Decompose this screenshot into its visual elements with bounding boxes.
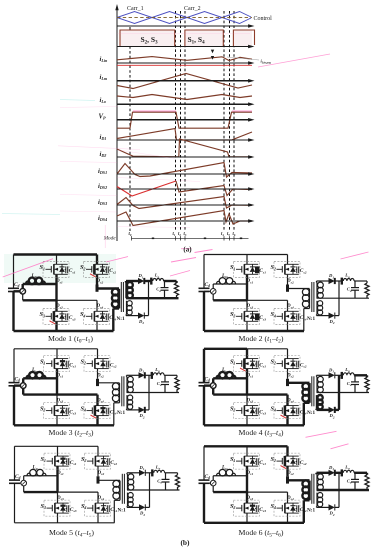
capacitor Cs1 mode 6	[255, 461, 256, 463]
pink current path stroke mode 6	[331, 444, 349, 449]
node bar primary junction mode 1	[96, 285, 99, 292]
svg-text:Ds1: Ds1	[246, 373, 254, 378]
wire node A left mode 2	[213, 299, 247, 301]
wire primary return mode 4	[303, 403, 305, 426]
inductor Lo mode 3	[153, 373, 164, 376]
current sensor circle mode 2	[210, 289, 216, 295]
current sensor circle mode 6	[210, 480, 216, 486]
wire right leg bottom mode 6	[287, 514, 289, 523]
transistor S4 mode 1	[84, 308, 110, 324]
wire D2 out mode 6	[335, 506, 339, 508]
waveform i_D2	[117, 139, 252, 157]
wire center tap mode 2	[317, 297, 370, 299]
wire primary bottom mode 6	[308, 499, 310, 501]
wire node A left mode 3	[23, 393, 57, 395]
transistor S1 mode 6	[234, 453, 260, 469]
inductor Lo mode 2	[343, 279, 354, 282]
svg-text:(b): (b)	[180, 538, 190, 547]
capacitor Co mode 6	[351, 478, 359, 480]
transformer secondary winding lower mode 1	[126, 301, 128, 315]
dashed time line t1	[175, 11, 177, 231]
diode D2 mode 5	[139, 504, 145, 510]
wire riser mode 5	[23, 476, 25, 481]
svg-text:Ds3: Ds3	[56, 398, 64, 403]
wire top rail right mode 1	[57, 253, 98, 255]
wire Co top mode 2	[354, 281, 356, 288]
wire mode 3	[176, 375, 178, 377]
wire center tap mode 6	[317, 489, 370, 491]
wire left leg bottom mode 5	[57, 514, 59, 523]
svg-text:Control: Control	[254, 16, 273, 22]
transformer primary winding mode 2	[309, 289, 311, 307]
svg-text:N:1: N:1	[307, 316, 315, 322]
svg-text:Ds1: Ds1	[246, 471, 254, 476]
axis i_Lo	[117, 103, 251, 105]
mode interval line	[132, 237, 249, 239]
wire mode 4	[366, 375, 368, 377]
wire to primary mode 4	[288, 382, 310, 384]
gating pulse fill	[120, 30, 175, 47]
wire right leg top mode 1	[96, 255, 98, 265]
body diode Ds2 mode 5	[103, 456, 105, 459]
svg-text:t3: t3	[184, 232, 187, 237]
V_P pink overlay	[133, 110, 176, 112]
node bar primary junction mode 5	[97, 476, 100, 483]
wire right leg mid mode 6	[286, 467, 288, 477]
wire top rail left mode 2	[204, 254, 247, 256]
wire right leg bottom mode 4	[286, 416, 288, 425]
wire mode 5	[114, 499, 120, 501]
pink current path stroke mode 1	[171, 258, 196, 263]
waveform i_DS1	[117, 163, 252, 178]
wire secondary top mode 4	[316, 375, 318, 377]
waveform i_D1	[117, 129, 252, 141]
wire D1 to node mode 4	[335, 374, 343, 376]
i_Lin average red line	[117, 64, 252, 66]
wire D2 riser mode 1	[148, 281, 150, 316]
diode D1 mode 4	[329, 372, 335, 378]
transformer secondary winding upper mode 3	[126, 377, 128, 393]
wire Lo to load mode 5	[165, 472, 178, 474]
wire Co top mode 1	[164, 281, 166, 288]
capacitor Cd mode 5	[9, 479, 20, 481]
inductor Lin mode 5	[24, 475, 58, 477]
transformer secondary winding upper mode 4	[316, 377, 318, 393]
transformer primary winding mode 4	[308, 383, 310, 401]
body diode Ds1 mode 3	[62, 359, 64, 362]
wire mode 4	[304, 402, 310, 404]
transistor S4 mode 3	[84, 403, 110, 419]
wire node A left mode 4	[213, 393, 247, 395]
resistor load mode 5	[175, 475, 179, 490]
label (a)	[181, 248, 192, 250]
transistor S2 mode 5	[85, 453, 111, 469]
axis i_DS3	[117, 204, 251, 206]
wire right leg lower mode 3	[96, 395, 98, 406]
waveform i_Lin	[117, 57, 252, 61]
wire right leg top mode 5	[97, 446, 99, 456]
wire right leg mid mode 4	[287, 369, 289, 379]
wire mode 6	[366, 473, 368, 475]
wire left leg lower mode 1	[55, 300, 57, 311]
transformer primary winding mode 6	[308, 481, 310, 499]
wire mode 6	[317, 506, 329, 508]
capacitor Cs4 mode 6	[296, 508, 297, 510]
wire left leg lower mode 2	[246, 300, 248, 311]
pink current path stroke mode 2	[341, 252, 369, 259]
wire mode 6	[304, 499, 310, 501]
wire D2 out mode 2	[335, 315, 339, 317]
timing diagram (a) vertical axis	[116, 8, 118, 241]
inductor Lo mode 4	[343, 373, 354, 376]
wire bottom rail mode 1	[14, 330, 114, 332]
wire secondary top mode 3	[126, 375, 128, 377]
transistor S4 mode 5	[85, 500, 111, 516]
wire left leg bottom mode 1	[55, 322, 57, 331]
node bar primary junction mode 4	[286, 379, 289, 386]
diode D2 mode 6	[329, 504, 335, 510]
wire primary bottom mode 4	[308, 401, 310, 403]
diode D2 mode 3	[139, 407, 145, 413]
wire circle down mode 2	[212, 294, 214, 300]
transformer secondary winding upper mode 2	[316, 282, 318, 298]
svg-text:Ds3: Ds3	[56, 496, 64, 501]
transformer primary winding mode 5	[119, 481, 121, 499]
wire secondary bottom mode 5	[126, 506, 128, 507]
svg-text:Mode: Mode	[103, 236, 117, 242]
transistor S2 mode 4	[274, 356, 300, 372]
pink artifact wisps	[60, 107, 118, 108]
svg-text:Ds3: Ds3	[246, 304, 254, 309]
svg-text:Mode 1 (t0–t1): Mode 1 (t0–t1)	[48, 334, 93, 345]
wire bottom rail mode 6	[204, 522, 304, 524]
svg-text:Lin: Lin	[221, 466, 228, 471]
diode D2 mode 4	[329, 407, 335, 413]
wire riser mode 1	[22, 284, 24, 289]
wire left edge lower mode 6	[203, 483, 205, 523]
wire left leg lower mode 6	[246, 492, 248, 503]
wire input mode 2	[204, 290, 210, 292]
wire primary bottom mode 2	[309, 307, 311, 309]
capacitor Cs3 mode 6	[255, 508, 256, 510]
wire right leg bottom mode 2	[287, 322, 289, 331]
node bar rectifier mode 3	[151, 372, 153, 379]
delta annotation arrows	[211, 50, 214, 54]
wire left edge lower mode 4	[203, 386, 205, 426]
capacitor Cs2 mode 3	[106, 363, 107, 365]
wire Co top mode 6	[354, 473, 356, 480]
wire right leg mid mode 1	[96, 275, 98, 285]
wire mode 5	[177, 473, 179, 475]
wire left edge upper mode 1	[13, 255, 15, 289]
capacitor Cs4 mode 1	[105, 316, 106, 318]
svg-text:t6: t6	[233, 232, 236, 237]
wire to primary mode 2	[288, 288, 310, 290]
svg-text:Lin: Lin	[31, 274, 38, 279]
wire primary return mode 5	[113, 500, 115, 523]
wire Co bottom mode 3	[164, 385, 166, 393]
current sensor circle mode 4	[210, 383, 216, 389]
wire mode 1	[126, 280, 138, 282]
node bar rectifier mode 5	[151, 469, 153, 476]
body diode Ds3 mode 5	[62, 503, 64, 506]
body diode Ds4 mode 2	[292, 311, 294, 314]
wire mode 6	[317, 472, 329, 474]
dashed time line t5	[229, 11, 231, 231]
transistor S4 mode 6	[274, 500, 300, 516]
capacitor Cs1 mode 2	[255, 269, 256, 271]
transformer secondary winding lower mode 5	[127, 493, 129, 507]
wire node A left mode 1	[23, 299, 57, 301]
wire riser mode 2	[212, 284, 214, 289]
wire secondary bottom mode 2	[316, 315, 318, 316]
wire circle down mode 4	[212, 388, 214, 394]
capacitor Cs4 mode 2	[296, 316, 297, 318]
wire Lo to load mode 2	[354, 280, 367, 282]
wire top rail right mode 4	[247, 348, 288, 350]
wire mode 3	[127, 374, 139, 376]
inductor Lin mode 3	[23, 377, 57, 379]
transformer secondary winding upper mode 6	[316, 474, 318, 490]
transistor S3 mode 4	[234, 403, 260, 419]
wire input mode 1	[14, 290, 20, 292]
svg-text:N:1: N:1	[117, 316, 125, 322]
wire right leg lower mode 4	[286, 395, 288, 406]
wire left leg mid mode 2	[246, 275, 248, 301]
axis i_DS4	[117, 220, 251, 222]
body diode Ds4 mode 4	[292, 406, 294, 409]
wire center tap mode 5	[127, 489, 180, 491]
inductor Lin mode 6	[213, 475, 247, 477]
axis i_Lin	[117, 62, 251, 64]
capacitor Cd mode 1	[8, 287, 19, 289]
axis i_D1	[117, 139, 251, 141]
waveform i_Lm	[117, 74, 252, 89]
wire secondary bottom mode 6	[316, 506, 318, 507]
wire left edge upper mode 4	[203, 349, 205, 383]
capacitor Cd mode 4	[199, 382, 210, 384]
wire Co top mode 5	[165, 473, 167, 480]
transistor S3 mode 5	[44, 500, 70, 516]
wire D1 to node mode 3	[145, 374, 153, 376]
svg-text:N:1: N:1	[307, 508, 315, 514]
wire D2 out mode 5	[145, 506, 149, 508]
wire circle down mode 5	[23, 486, 25, 492]
svg-text:Ds3: Ds3	[246, 398, 254, 403]
wire left leg lower mode 4	[246, 395, 248, 406]
wire mode 2	[317, 315, 329, 317]
svg-text:t1: t1	[173, 232, 176, 237]
pink current path stroke mode 4	[306, 431, 337, 437]
svg-text:Ds2: Ds2	[286, 373, 294, 378]
wire D1 to node mode 5	[145, 472, 153, 474]
svg-text:t2: t2	[178, 232, 181, 237]
wire left leg mid mode 4	[246, 369, 248, 395]
transistor S1 mode 3	[44, 356, 70, 372]
capacitor Cs2 mode 1	[105, 269, 106, 271]
wire left leg top mode 1	[56, 255, 58, 265]
body diode Ds1 mode 5	[62, 456, 64, 459]
wire mode 4	[317, 409, 329, 411]
wire right leg bottom mode 1	[96, 322, 98, 331]
wire mode 2	[366, 281, 368, 283]
wire circle down mode 3	[22, 388, 24, 394]
wire right leg mid mode 2	[287, 275, 289, 285]
wire right leg lower mode 6	[287, 492, 289, 503]
body diode Ds2 mode 6	[292, 456, 294, 459]
transistor S1 mode 4	[234, 356, 260, 372]
svg-text:Lin: Lin	[31, 368, 38, 373]
wire D2 riser mode 2	[338, 281, 340, 316]
transformer secondary winding lower mode 3	[126, 395, 128, 409]
wire right leg bottom mode 3	[96, 416, 98, 425]
node bar rectifier mode 1	[150, 278, 152, 285]
svg-text:Mode 3 (t2–t3): Mode 3 (t2–t3)	[49, 428, 94, 439]
node bar primary junction mode 2	[286, 285, 289, 292]
diode D1 mode 1	[138, 278, 144, 284]
wire left leg mid mode 1	[55, 275, 57, 301]
capacitor Cs3 mode 4	[255, 410, 256, 412]
wire primary return mode 6	[303, 500, 305, 523]
svg-text:Mode 6 (t5–t6): Mode 6 (t5–t6)	[239, 528, 284, 539]
capacitor Cd mode 6	[199, 479, 210, 481]
transformer core mode 5	[121, 474, 123, 504]
capacitor Cs1 mode 5	[66, 461, 67, 463]
waveform V_P	[117, 112, 252, 128]
wire circle down mode 6	[212, 486, 214, 492]
svg-text:Ds2: Ds2	[97, 471, 105, 476]
wire primary bottom mode 1	[118, 307, 120, 309]
wire to primary mode 1	[97, 287, 119, 289]
svg-text:Ds4: Ds4	[286, 496, 294, 501]
pink current path stroke mode 2	[195, 250, 213, 253]
wire secondary top mode 6	[315, 473, 317, 475]
body diode Ds3 mode 1	[61, 311, 63, 314]
wire bottom rail mode 2	[204, 330, 304, 332]
wire top rail left mode 4	[204, 348, 247, 350]
body diode Ds2 mode 4	[292, 359, 294, 362]
wire left leg top mode 3	[56, 349, 58, 359]
inductor Lin mode 4	[213, 377, 247, 379]
waveform i_DS2	[176, 181, 252, 196]
node bar rectifier mode 4	[341, 372, 343, 379]
svg-text:N:1: N:1	[117, 410, 125, 416]
capacitor Cd mode 3	[9, 382, 20, 384]
wire right leg lower mode 2	[287, 300, 289, 311]
inductor Lo mode 5	[154, 470, 165, 473]
wire input mode 6	[204, 482, 210, 484]
wire mode 3	[114, 402, 120, 404]
waveform i_DS4	[117, 211, 252, 226]
wire top rail left mode 1	[14, 253, 57, 255]
chroma tint wash	[4, 254, 116, 283]
wire node A left mode 6	[213, 491, 247, 493]
diode D2 mode 1	[138, 313, 144, 319]
body diode Ds1 mode 2	[252, 264, 254, 267]
svg-text:Ds4: Ds4	[286, 304, 294, 309]
wire left leg bottom mode 2	[246, 322, 248, 331]
wire Co bottom mode 5	[165, 482, 167, 490]
body diode Ds2 mode 3	[102, 359, 104, 362]
wire left leg top mode 5	[57, 446, 59, 456]
wire right leg top mode 2	[287, 255, 289, 265]
wire bottom rail mode 5	[15, 522, 115, 524]
current sensor circle mode 1	[20, 289, 26, 295]
capacitor Co mode 1	[161, 287, 169, 289]
transistor S2 mode 6	[274, 453, 300, 469]
svg-text:Ds2: Ds2	[286, 279, 294, 284]
wire mode 2	[317, 280, 329, 282]
resistor load mode 1	[174, 283, 178, 298]
wire left leg top mode 2	[246, 255, 248, 265]
wire right leg lower mode 5	[97, 492, 99, 503]
wire top rail left mode 5	[15, 445, 58, 447]
wire left edge lower mode 2	[203, 292, 205, 332]
transistor S1 mode 1	[43, 261, 69, 277]
transformer core mode 4	[311, 376, 313, 406]
wire left leg bottom mode 3	[56, 416, 58, 425]
wire left edge lower mode 3	[13, 386, 15, 426]
body diode Ds4 mode 1	[102, 311, 104, 314]
current sensor circle mode 5	[21, 480, 27, 486]
wire secondary top mode 5	[126, 473, 128, 475]
wire input mode 4	[204, 384, 210, 386]
svg-text:Carr_1: Carr_1	[127, 6, 144, 12]
wire primary bottom mode 5	[119, 499, 121, 501]
svg-text:Ds4: Ds4	[97, 496, 105, 501]
axis i_D2	[117, 156, 251, 158]
axis i_DS2	[117, 188, 251, 190]
pink current path stroke mode 1	[3, 259, 53, 277]
transformer secondary winding upper mode 1	[125, 282, 127, 298]
wire secondary bottom mode 4	[315, 409, 317, 410]
body diode Ds3 mode 4	[252, 406, 254, 409]
axis i_Lm	[117, 80, 251, 82]
svg-text:Ds1: Ds1	[56, 373, 64, 378]
wire primary bottom mode 3	[119, 401, 121, 403]
gating square wave S2S3 S1S4	[117, 30, 255, 47]
svg-text:(a): (a)	[183, 246, 192, 254]
pink current path stroke mode 1	[170, 271, 190, 277]
wire top rail right mode 2	[247, 254, 288, 256]
body diode Ds1 mode 6	[252, 456, 254, 459]
dashed time line t3	[184, 11, 186, 231]
svg-text:N:1: N:1	[307, 410, 315, 416]
inductor Lin mode 2	[213, 283, 247, 285]
diode D1 mode 6	[329, 470, 335, 476]
transistor S4 mode 4	[274, 403, 300, 419]
capacitor Cs3 mode 3	[65, 410, 66, 412]
wire mode 3	[127, 409, 139, 411]
transformer secondary winding upper mode 5	[127, 474, 129, 490]
axis i_DS1	[117, 173, 251, 175]
wire bottom rail mode 4	[204, 424, 304, 426]
wire left edge lower mode 5	[14, 483, 16, 523]
node bar rectifier mode 2	[341, 278, 343, 285]
svg-text:Mode 5 (t4–t5): Mode 5 (t4–t5)	[49, 528, 94, 539]
wire D2 riser mode 4	[338, 375, 340, 410]
node bar primary junction mode 6	[286, 476, 289, 483]
wire secondary bottom mode 3	[126, 409, 128, 410]
inductor Lo mode 1	[153, 279, 164, 282]
body diode Ds4 mode 3	[102, 406, 104, 409]
wire top rail right mode 3	[57, 348, 98, 350]
wire D2 out mode 4	[335, 409, 339, 411]
body diode Ds1 mode 4	[252, 359, 254, 362]
wire D2 riser mode 6	[338, 473, 340, 508]
wire mode 2	[304, 308, 310, 310]
wire riser mode 4	[212, 378, 214, 383]
